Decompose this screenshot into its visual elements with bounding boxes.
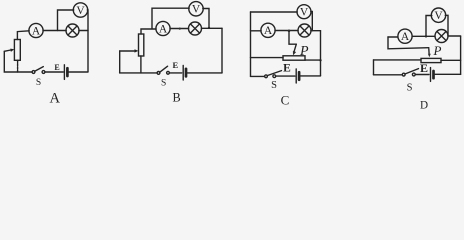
wire right vertical B — [221, 28, 223, 73]
svg-text:P: P — [299, 44, 309, 59]
svg-text:S: S — [407, 83, 413, 94]
slider arrow C — [293, 44, 296, 55]
svg-text:A: A — [401, 31, 410, 43]
svg-text:A: A — [50, 90, 61, 106]
switch S (circuit B) — [157, 66, 169, 74]
svg-text:E: E — [420, 61, 428, 75]
wire V-branch left stub A — [58, 10, 74, 31]
wire V right + right vertical A — [86, 10, 89, 72]
wire V-branch left stub B — [152, 8, 189, 29]
svg-text:A: A — [159, 23, 168, 35]
wire left side + bottom left A — [4, 51, 32, 72]
slider arrow (circuit A) — [4, 49, 14, 52]
wire row left to ammeter D — [388, 36, 398, 38]
svg-text:D: D — [420, 100, 428, 109]
wire rheostat bottom stub B — [140, 56, 142, 73]
battery (circuit A) — [64, 65, 67, 80]
junction dot D — [425, 35, 427, 37]
wire battery to right vertical A — [69, 71, 88, 73]
wire V-branch left stub D — [426, 16, 432, 37]
slider arrow (circuit B) — [120, 49, 139, 52]
svg-text:E: E — [172, 60, 178, 70]
svg-text:V: V — [192, 4, 201, 16]
wire ammeter to lamp D — [412, 35, 435, 37]
wire ammeter to lamp A — [43, 30, 66, 32]
junction dot C — [288, 30, 291, 33]
svg-text:E: E — [54, 63, 59, 72]
switch S (circuit D) — [402, 69, 418, 76]
wire battery to right vertical D — [435, 73, 461, 75]
battery (circuit B) — [183, 66, 186, 81]
wire pot left D — [374, 59, 422, 61]
wire battery to right vertical C — [301, 75, 321, 77]
junction dot B right — [208, 27, 210, 29]
rheostat R (circuit B) — [139, 34, 144, 56]
voltmeter V (circuit D) — [431, 8, 445, 22]
potentiometer P (circuit C) — [283, 56, 305, 60]
wire rheostat bottom stub A — [17, 60, 19, 72]
junction dot C pot-right — [319, 59, 321, 61]
lamp L (circuit B) — [189, 22, 202, 35]
slider tap wire C — [289, 32, 296, 45]
rheostat R (circuit A) — [14, 40, 20, 61]
wire bottom left to switch D — [374, 74, 403, 76]
svg-text:S: S — [36, 78, 41, 88]
svg-text:V: V — [76, 5, 85, 17]
ammeter A (circuit D) — [398, 29, 412, 43]
voltmeter V (circuit B) — [189, 2, 203, 16]
wire switch to battery C — [276, 75, 295, 77]
wire bottom right B — [187, 72, 222, 74]
svg-text:C: C — [281, 93, 290, 108]
svg-text:S: S — [161, 79, 166, 89]
potentiometer P (circuit D) — [421, 58, 441, 62]
wire right vertical C — [320, 31, 322, 76]
battery (circuit D) — [431, 68, 434, 82]
wire bottom left to switch C — [251, 75, 265, 77]
ammeter A (circuit C) — [261, 23, 275, 37]
svg-text:A: A — [32, 25, 41, 37]
wire switch to battery D — [415, 74, 429, 76]
wire lamp to right vertical C — [311, 30, 321, 32]
switch S (circuit C) — [265, 71, 282, 78]
wire V right stub C — [311, 12, 313, 31]
wire left vertical B — [119, 51, 121, 73]
wire lamp to right corner D — [448, 35, 461, 37]
lamp L (circuit D) — [435, 30, 448, 43]
battery (circuit C) — [296, 69, 299, 83]
wire lamp to right vertical A — [79, 30, 88, 32]
wire rheostat top to row B — [141, 29, 156, 34]
wire row left to ammeter C — [251, 30, 262, 32]
wire pot right C — [305, 59, 321, 61]
svg-text:B: B — [172, 91, 180, 105]
wire top to voltmeter C — [251, 11, 298, 13]
svg-text:A: A — [264, 25, 273, 37]
switch S (circuit A) — [32, 67, 45, 74]
wire pot left C — [251, 57, 284, 59]
wire right vertical D — [460, 36, 462, 74]
voltmeter V (circuit A) — [73, 3, 87, 17]
svg-text:V: V — [300, 7, 309, 19]
wire ammeter to junction C — [275, 30, 298, 32]
lamp L (circuit C) — [298, 24, 311, 37]
voltmeter V (circuit C) — [297, 5, 311, 19]
ammeter A (circuit B) — [156, 21, 170, 35]
slider tap wire D — [388, 37, 429, 49]
svg-text:E: E — [283, 62, 291, 74]
wire lamp to right corner B — [201, 27, 222, 29]
wire left vertical C — [250, 12, 252, 76]
svg-text:S: S — [271, 80, 277, 91]
ammeter A1 (circuit A) — [29, 23, 43, 37]
wire battery to switch B — [169, 72, 181, 74]
wire switch to bottom left B — [120, 72, 158, 74]
wire switch to battery A — [45, 71, 63, 73]
junction dot B mid — [179, 28, 181, 30]
slider arrow D — [428, 49, 431, 58]
wire ammeter to lamp B — [170, 28, 189, 30]
wire pot right D — [441, 59, 461, 61]
svg-text:V: V — [434, 10, 443, 22]
lamp L (circuit A) — [66, 24, 79, 37]
wire rheostat top to ammeter A — [17, 31, 29, 40]
wire V right stub D — [445, 15, 448, 36]
svg-text:P: P — [433, 43, 442, 58]
wire V right stub B — [203, 9, 209, 28]
wire left vertical D — [373, 60, 375, 75]
